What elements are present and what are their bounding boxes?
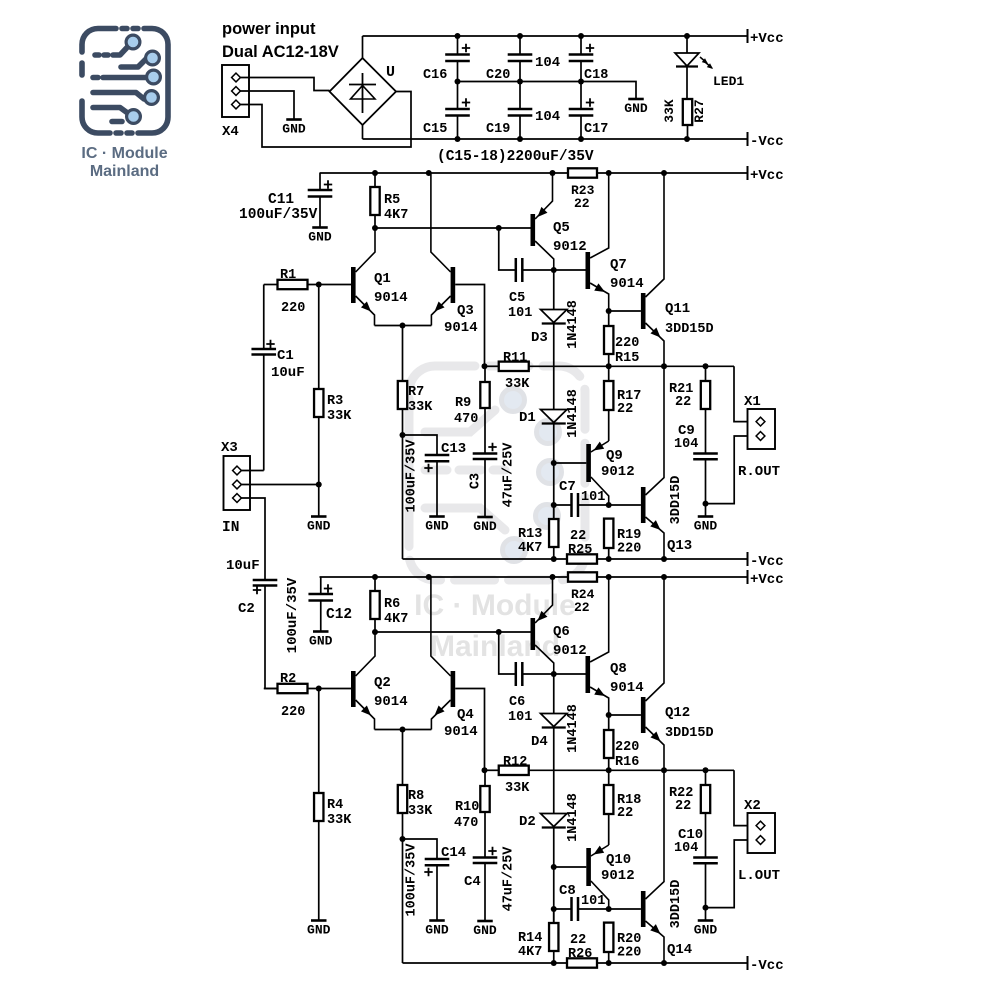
- decorative watermark: [409, 366, 585, 580]
- transistor Q1: [351, 267, 356, 303]
- wire emitter bus right: [375, 325, 432, 327]
- resistor R22: [705, 770, 707, 785]
- resistor R20: [604, 923, 613, 952]
- transistor Q12: [609, 714, 641, 716]
- svg-text:C1: C1: [277, 348, 294, 364]
- resistor R25: [567, 554, 597, 563]
- wire base Q2: [308, 688, 352, 690]
- svg-text:220: 220: [281, 301, 305, 316]
- resistor R9: [484, 366, 486, 382]
- wire base Q4: [455, 689, 484, 771]
- svg-text:9014: 9014: [444, 724, 478, 740]
- svg-text:R14: R14: [518, 931, 542, 946]
- transistor Q4: [451, 671, 456, 707]
- svg-text:D4: D4: [531, 734, 548, 750]
- svg-text:Q7: Q7: [610, 257, 627, 273]
- svg-text:C14: C14: [441, 845, 466, 861]
- diode D1: [553, 324, 555, 410]
- wire +Vcc rail left: [320, 576, 569, 578]
- svg-text:470: 470: [454, 412, 478, 427]
- bridge rectifier U: [330, 58, 397, 125]
- capacitor C18: [580, 36, 582, 55]
- transistor Q11: [609, 310, 641, 312]
- capacitor C14: [403, 839, 438, 859]
- svg-text:220: 220: [617, 542, 641, 557]
- svg-text:X1: X1: [744, 394, 761, 410]
- wire X2 pin2 to ground: [706, 840, 748, 908]
- ground C11: [312, 226, 328, 229]
- svg-text:R11: R11: [503, 351, 527, 366]
- ground C12: [313, 630, 329, 633]
- resistor R3: [318, 285, 320, 390]
- transistor Q14: [609, 908, 641, 910]
- capacitor C19: [519, 82, 521, 110]
- capacitor C10: [693, 858, 718, 864]
- diode D4: [553, 674, 555, 714]
- resistor R15: [608, 311, 610, 326]
- svg-text:C16: C16: [423, 68, 447, 83]
- svg-text:GND: GND: [694, 519, 718, 534]
- svg-text:22: 22: [570, 933, 586, 948]
- resistor R16: [608, 715, 610, 730]
- svg-text:9014: 9014: [444, 320, 478, 336]
- svg-text:+Vcc: +Vcc: [750, 572, 784, 588]
- svg-text:C12: C12: [326, 607, 352, 623]
- svg-text:R9: R9: [455, 396, 471, 411]
- transistor Q5: [531, 214, 536, 246]
- svg-text:3DD15D: 3DD15D: [665, 322, 714, 337]
- wire X4 pin1 to bridge: [241, 78, 330, 91]
- svg-text:104: 104: [535, 55, 560, 71]
- resistor R26: [567, 958, 597, 967]
- svg-text:GND: GND: [425, 923, 449, 938]
- svg-text:X3: X3: [221, 440, 238, 456]
- svg-text:D1: D1: [519, 410, 536, 426]
- connector X4: [222, 65, 249, 117]
- svg-text:22: 22: [675, 799, 691, 814]
- wire LED1 to R27: [686, 67, 688, 100]
- ground mid bus: [628, 98, 644, 101]
- wire X3 pin1 to C1: [241, 470, 263, 472]
- svg-text:33K: 33K: [505, 781, 530, 796]
- resistor R17: [608, 366, 610, 381]
- svg-text:Q14: Q14: [667, 942, 692, 958]
- svg-text:GND: GND: [282, 122, 306, 137]
- wire X3 pin3 to C2: [241, 498, 265, 580]
- svg-text:R15: R15: [615, 351, 639, 366]
- svg-text:R6: R6: [384, 597, 400, 612]
- svg-text:Q5: Q5: [553, 220, 570, 236]
- svg-text:Q11: Q11: [665, 301, 690, 317]
- svg-text:22: 22: [570, 529, 586, 544]
- svg-text:4K7: 4K7: [518, 541, 542, 556]
- wire X4 pin3 to bridge: [241, 92, 412, 148]
- wire +raw rail: [363, 35, 748, 37]
- svg-text:Q8: Q8: [610, 661, 627, 677]
- svg-text:power input: power input: [222, 20, 316, 38]
- resistor R14: [553, 909, 555, 923]
- capacitor C11: [319, 173, 321, 190]
- svg-text:33K: 33K: [327, 813, 352, 828]
- capacitor C8: [554, 908, 571, 910]
- svg-text:GND: GND: [309, 634, 333, 649]
- capacitor C1: [263, 285, 265, 350]
- svg-text:IC · Module: IC · Module: [81, 145, 167, 162]
- svg-text:C7: C7: [559, 479, 576, 495]
- transistor Q6: [531, 618, 536, 650]
- svg-text:101: 101: [508, 710, 532, 725]
- resistor R10: [484, 770, 486, 786]
- svg-text:R27: R27: [692, 99, 707, 122]
- svg-text:X2: X2: [744, 798, 761, 814]
- resistor R2: [278, 684, 308, 693]
- capacitor C17: [580, 82, 582, 110]
- svg-text:C6: C6: [509, 695, 525, 710]
- svg-text:100uF/35V: 100uF/35V: [405, 439, 420, 513]
- svg-text:1N4148: 1N4148: [566, 704, 581, 753]
- svg-text:33K: 33K: [662, 99, 677, 123]
- resistor R24: [568, 572, 597, 581]
- transistor Q13: [609, 504, 641, 506]
- ground C10: [705, 908, 707, 920]
- capacitor C5: [499, 228, 515, 270]
- capacitor C2: [253, 580, 278, 586]
- wire mid bus: [458, 82, 637, 99]
- capacitor C6: [499, 632, 515, 674]
- wire X1 pin2 to ground: [706, 436, 748, 504]
- svg-text:GND: GND: [425, 519, 449, 534]
- svg-text:101: 101: [581, 490, 605, 505]
- capacitor C12: [320, 577, 322, 594]
- svg-text:R1: R1: [280, 268, 296, 283]
- svg-text:GND: GND: [473, 519, 497, 534]
- svg-text:C8: C8: [559, 883, 576, 899]
- svg-text:-Vcc: -Vcc: [750, 958, 784, 974]
- svg-text:9012: 9012: [601, 868, 635, 884]
- svg-text:R7: R7: [408, 385, 424, 400]
- wire emitter bus left: [375, 729, 432, 731]
- svg-text:1N4148: 1N4148: [566, 389, 581, 438]
- resistor R7: [398, 381, 407, 409]
- LED LED1: [686, 36, 688, 53]
- svg-text:L.OUT: L.OUT: [738, 868, 780, 884]
- svg-text:47uF/25V: 47uF/25V: [502, 442, 517, 508]
- svg-text:Q4: Q4: [457, 707, 474, 723]
- capacitor C7: [554, 504, 571, 506]
- svg-text:33K: 33K: [505, 377, 530, 392]
- svg-text:3DD15D: 3DD15D: [669, 880, 684, 929]
- wire X3 pin2 to ground: [241, 484, 318, 486]
- ground C14: [429, 919, 445, 922]
- logo IC Module Mainland: [82, 29, 168, 134]
- ground C4: [477, 920, 493, 923]
- svg-text:X4: X4: [222, 124, 239, 140]
- wire R27 to -raw: [687, 125, 689, 139]
- svg-text:LED1: LED1: [713, 74, 744, 89]
- svg-text:R13: R13: [518, 527, 542, 542]
- wire -Vcc rail left: [403, 962, 568, 964]
- ground R4: [311, 919, 327, 922]
- wire -Vcc rail right: [403, 558, 568, 560]
- ground C3: [477, 516, 493, 519]
- svg-text:101: 101: [508, 306, 532, 321]
- svg-text:220: 220: [615, 740, 639, 755]
- wire X4 pin2 to ground: [241, 91, 295, 119]
- ground X4: [286, 118, 302, 121]
- resistor R4: [318, 689, 320, 794]
- resistor R18: [608, 770, 610, 785]
- ground C13: [429, 515, 445, 518]
- svg-text:C11: C11: [268, 192, 294, 208]
- svg-text:Q2: Q2: [374, 675, 391, 691]
- svg-text:4K7: 4K7: [384, 612, 408, 627]
- svg-text:33K: 33K: [408, 804, 433, 819]
- svg-text:R12: R12: [503, 755, 527, 770]
- svg-text:104: 104: [535, 109, 560, 125]
- svg-text:-Vcc: -Vcc: [750, 554, 784, 570]
- svg-text:220: 220: [281, 705, 305, 720]
- svg-text:33K: 33K: [408, 400, 433, 415]
- transistor Q7: [554, 269, 586, 271]
- capacitor C4: [473, 858, 498, 864]
- svg-text:R26: R26: [568, 947, 592, 962]
- svg-text:10uF: 10uF: [271, 365, 305, 381]
- svg-text:10uF: 10uF: [226, 558, 260, 574]
- svg-text:GND: GND: [308, 230, 332, 245]
- capacitor C15: [457, 82, 459, 110]
- wire bridge bottom to -raw rail: [362, 125, 364, 139]
- capacitor C16: [457, 36, 459, 55]
- ground C9: [705, 504, 707, 516]
- svg-text:C20: C20: [486, 68, 510, 83]
- svg-text:GND: GND: [624, 101, 648, 116]
- transistor Q9: [554, 462, 587, 464]
- connector X2: [748, 813, 776, 853]
- svg-text:U: U: [386, 64, 395, 81]
- capacitor C3: [473, 454, 498, 460]
- svg-text:100uF/35V: 100uF/35V: [239, 207, 318, 223]
- svg-text:R16: R16: [615, 755, 639, 770]
- resistor R11: [482, 363, 488, 369]
- resistor R13: [553, 505, 555, 519]
- resistor R5: [374, 173, 376, 187]
- diode D3: [553, 270, 555, 310]
- svg-text:C5: C5: [509, 291, 525, 306]
- transistor Q2: [351, 671, 356, 707]
- svg-text:Mainland: Mainland: [90, 163, 159, 180]
- svg-text:(C15-18)2200uF/35V: (C15-18)2200uF/35V: [437, 149, 594, 165]
- svg-text:9014: 9014: [610, 680, 644, 696]
- svg-text:+Vcc: +Vcc: [750, 31, 784, 47]
- svg-text:C4: C4: [464, 874, 481, 890]
- svg-text:9014: 9014: [374, 694, 408, 710]
- svg-text:IN: IN: [222, 520, 239, 536]
- svg-text:Q1: Q1: [374, 271, 391, 287]
- svg-text:9012: 9012: [601, 464, 635, 480]
- svg-text:22: 22: [617, 806, 633, 821]
- svg-text:R4: R4: [327, 798, 343, 813]
- resistor R27: [683, 99, 692, 125]
- svg-text:9014: 9014: [610, 276, 644, 292]
- connector X1: [748, 409, 776, 449]
- svg-text:4K7: 4K7: [518, 945, 542, 960]
- wire base Q3: [455, 285, 484, 367]
- resistor R12: [482, 767, 488, 773]
- svg-text:R10: R10: [455, 800, 479, 815]
- svg-text:GND: GND: [473, 923, 497, 938]
- svg-text:220: 220: [615, 336, 639, 351]
- connector X3: [224, 456, 251, 510]
- svg-text:9012: 9012: [553, 643, 587, 659]
- svg-text:470: 470: [454, 816, 478, 831]
- svg-text:Q13: Q13: [667, 538, 692, 554]
- svg-text:22: 22: [675, 395, 691, 410]
- svg-text:C18: C18: [584, 68, 608, 83]
- resistor R1: [278, 280, 308, 289]
- capacitor C20: [519, 36, 521, 55]
- svg-text:C2: C2: [238, 601, 255, 617]
- svg-text:Dual AC12-18V: Dual AC12-18V: [222, 43, 339, 61]
- wire output to X1: [734, 366, 748, 421]
- wire base row Q6: [375, 631, 531, 633]
- svg-text:101: 101: [581, 894, 605, 909]
- wire base Q1: [308, 284, 352, 286]
- svg-text:9012: 9012: [553, 239, 587, 255]
- wire +Vcc rail right: [320, 172, 569, 174]
- resistor R21: [705, 366, 707, 381]
- capacitor C9: [693, 454, 718, 460]
- svg-text:47uF/25V: 47uF/25V: [502, 846, 517, 912]
- svg-text:3DD15D: 3DD15D: [665, 726, 714, 741]
- svg-text:Q6: Q6: [553, 624, 570, 640]
- svg-text:D2: D2: [519, 814, 536, 830]
- svg-text:GND: GND: [307, 519, 331, 534]
- diode D2: [553, 728, 555, 814]
- svg-text:C3: C3: [469, 473, 484, 489]
- svg-text:C13: C13: [441, 441, 466, 457]
- svg-text:Q3: Q3: [457, 303, 474, 319]
- wire bias chain left: [553, 828, 555, 924]
- svg-text:Q12: Q12: [665, 705, 690, 721]
- svg-text:22: 22: [617, 402, 633, 417]
- svg-text:R25: R25: [568, 543, 592, 558]
- svg-text:1N4148: 1N4148: [566, 793, 581, 842]
- svg-text:-Vcc: -Vcc: [750, 134, 784, 150]
- resistor R19: [604, 519, 613, 548]
- svg-text:Q9: Q9: [606, 448, 623, 464]
- resistor R23: [568, 168, 597, 177]
- svg-text:R2: R2: [280, 672, 296, 687]
- svg-text:33K: 33K: [327, 409, 352, 424]
- svg-text:100uF/35V: 100uF/35V: [285, 577, 301, 653]
- svg-text:Mainland: Mainland: [430, 630, 560, 663]
- svg-text:3DD15D: 3DD15D: [669, 476, 684, 525]
- svg-text:D3: D3: [531, 330, 548, 346]
- capacitor C13: [403, 435, 438, 455]
- svg-text:220: 220: [617, 946, 641, 961]
- svg-text:104: 104: [674, 841, 698, 856]
- svg-text:Q10: Q10: [606, 852, 631, 868]
- ground R3: [311, 515, 327, 518]
- transistor Q3: [451, 267, 456, 303]
- resistor R6: [374, 577, 376, 591]
- svg-text:C19: C19: [486, 122, 510, 137]
- wire bridge top to +raw rail: [362, 36, 364, 58]
- svg-text:R.OUT: R.OUT: [738, 464, 780, 480]
- svg-text:+Vcc: +Vcc: [750, 168, 784, 184]
- svg-text:9014: 9014: [374, 290, 408, 306]
- resistor R8: [398, 785, 407, 813]
- svg-text:C17: C17: [584, 122, 608, 137]
- svg-text:C15: C15: [423, 122, 447, 137]
- wire bias chain right: [553, 424, 555, 520]
- svg-text:R8: R8: [408, 789, 424, 804]
- svg-text:22: 22: [574, 600, 590, 615]
- svg-text:1N4148: 1N4148: [566, 300, 581, 349]
- wire output to X2: [734, 770, 748, 825]
- wire -raw rail: [363, 138, 748, 140]
- transistor Q10: [554, 866, 587, 868]
- svg-text:R3: R3: [327, 394, 343, 409]
- svg-text:4K7: 4K7: [384, 208, 408, 223]
- svg-text:R5: R5: [384, 193, 400, 208]
- svg-text:100uF/35V: 100uF/35V: [405, 843, 420, 917]
- svg-text:22: 22: [574, 196, 590, 211]
- transistor Q8: [554, 673, 586, 675]
- wire base row Q5: [375, 227, 531, 229]
- svg-text:104: 104: [674, 437, 698, 452]
- svg-text:GND: GND: [307, 923, 331, 938]
- svg-text:GND: GND: [694, 923, 718, 938]
